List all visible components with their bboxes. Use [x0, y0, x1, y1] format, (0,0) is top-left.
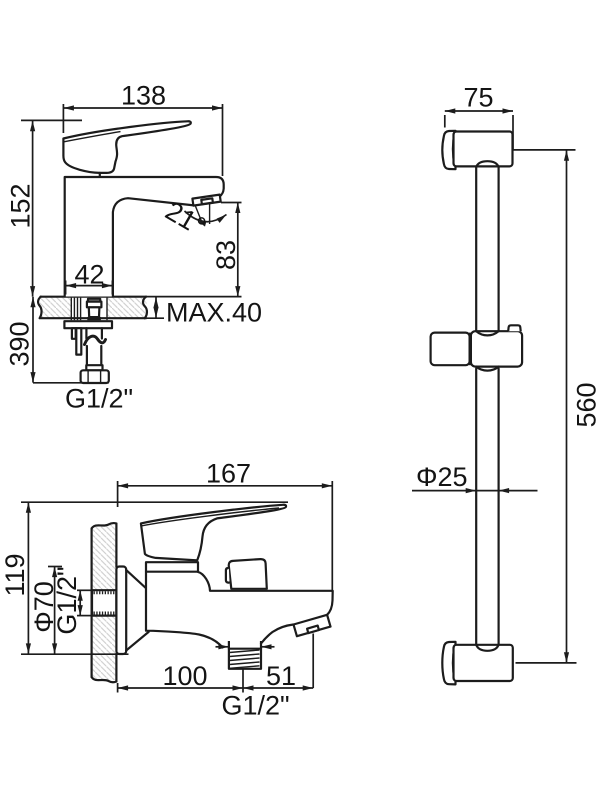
dim 119 line [27, 502, 29, 654]
hose lower segment [86, 346, 88, 365]
wall bottom break [92, 677, 117, 682]
angled spout outlet outer [294, 615, 331, 636]
hose fitting tube [89, 307, 100, 317]
top bracket junction arc [453, 133, 455, 166]
angle arc with arrows [185, 211, 227, 222]
dim nipple line [79, 590, 81, 615]
nipple thread serration bottom [94, 612, 116, 615]
svg-text:138: 138 [121, 81, 166, 111]
bath handle ring [146, 562, 198, 572]
dim 83 line [237, 203, 239, 297]
hose collar [86, 365, 102, 370]
slider right block [471, 331, 522, 366]
dim 51 line [243, 687, 313, 689]
svg-text:100: 100 [162, 661, 207, 691]
aerator outer [192, 195, 220, 206]
tube bottom cap arc [476, 645, 498, 651]
ext angled outlet [312, 634, 314, 689]
hose upper segment [85, 328, 87, 338]
svg-text:390: 390 [5, 321, 35, 366]
hose squiggle [85, 336, 106, 344]
svg-text:152: 152 [5, 183, 35, 228]
dim 42 line [66, 285, 113, 287]
dim 390 ext bottom [33, 382, 109, 384]
spout stream 21deg line [195, 205, 202, 222]
counter right break [143, 297, 147, 319]
outlet collar line [229, 648, 261, 650]
dim 167 ext right [331, 481, 333, 592]
MAX40 arrows [155, 297, 157, 318]
slider button [508, 325, 521, 331]
angle arc arrowhead left [198, 221, 206, 226]
wall face line upper [115, 524, 117, 568]
svg-text:83: 83 [211, 240, 241, 270]
spout vertical reference line [209, 203, 211, 224]
dim 138 ext left [62, 104, 64, 133]
wall hatch [93, 525, 116, 680]
dim 42 ext [65, 281, 67, 295]
dim 138 line [63, 107, 222, 109]
mounting stud short [72, 328, 76, 339]
dim 152 line [32, 121, 34, 297]
bottom bracket junction arc [453, 646, 455, 680]
nipple ext top [77, 589, 92, 591]
slider bottom bulge [476, 367, 498, 371]
svg-text:Φ25: Φ25 [416, 462, 468, 492]
diverter knob [229, 559, 267, 589]
washer plate under counter [64, 321, 112, 328]
escutcheon cone bottom [126, 632, 148, 651]
ext wall bottom [117, 683, 119, 693]
slider top dip [476, 331, 498, 335]
dim 138 ext right [222, 104, 224, 176]
bath body left and bottom [146, 572, 224, 648]
dim 152 ext top [21, 119, 82, 121]
dim 83 ext top [221, 202, 242, 204]
tube top cap arc [476, 161, 498, 167]
cone base edge [147, 591, 149, 633]
counter bottom ext [147, 317, 165, 319]
handle inner edge line [64, 132, 121, 142]
svg-text:119: 119 [0, 553, 30, 596]
dim 560 line [566, 150, 568, 663]
svg-text:560: 560 [572, 382, 600, 427]
escutcheon plate [116, 567, 126, 655]
counter hatch right [107, 298, 147, 318]
SECTION: shower slide bar right [412, 83, 600, 685]
dim 390 line [32, 297, 34, 383]
counter top line [41, 296, 147, 298]
SECTION: basin mixer top-left [5, 81, 263, 414]
handle to body step [99, 173, 101, 177]
counter hatch left [40, 298, 71, 318]
dim 75 ext right [512, 115, 514, 150]
dim 560 ext bottom [516, 662, 577, 664]
hose fitting top plate [88, 299, 100, 302]
dim 119 ext bottom [21, 653, 129, 655]
G1/2 hex nut [81, 370, 109, 383]
bath handle lever [141, 505, 286, 561]
bottom bracket body [454, 645, 513, 681]
bath outlet threaded [229, 641, 261, 669]
dim 167 ext left [117, 481, 119, 507]
bath body right of outlet [261, 625, 293, 644]
wall face line lower [115, 654, 117, 682]
nipple thread serration top [94, 591, 116, 594]
tube upper segment [475, 167, 477, 332]
outlet small dim arrow right [261, 646, 275, 648]
dim phi70 ext top [48, 566, 62, 568]
escutcheon cone top [126, 570, 148, 591]
hole right line [106, 298, 108, 321]
hose fitting dark band [87, 317, 101, 320]
nipple ext bottom [77, 615, 92, 617]
svg-text:G1/2": G1/2" [52, 566, 82, 634]
wall top break [92, 523, 117, 528]
svg-text:42: 42 [74, 260, 104, 290]
dim 560 ext top [513, 149, 576, 151]
dim 75 ext left [444, 115, 446, 128]
dim 75 line [445, 110, 513, 112]
top bracket body [454, 132, 513, 167]
dim 167 line [118, 485, 333, 487]
basin body underside [113, 198, 194, 296]
svg-text:51: 51 [266, 661, 296, 691]
mounting stud long [76, 328, 81, 354]
svg-text:G1/2": G1/2" [221, 691, 289, 721]
shank lines through counter [70, 298, 72, 321]
tube lower segment [475, 369, 477, 646]
basin body outline left top right [65, 177, 224, 297]
dim 119 ext top [21, 501, 288, 503]
aerator inner [201, 198, 213, 204]
slider left block [431, 333, 470, 366]
SECTION: bath mixer bottom-left [0, 459, 333, 721]
basin body [65, 177, 224, 297]
svg-text:167: 167 [206, 459, 251, 489]
counter bottom line [41, 317, 147, 319]
svg-text:75: 75 [463, 83, 493, 113]
nut flat lines [87, 370, 89, 383]
diverter tab [226, 568, 230, 583]
outlet small dim arrow left [216, 646, 229, 648]
dim phi25 mid [476, 490, 498, 492]
outlet threads [230, 650, 260, 668]
dim phi25 left line [412, 490, 476, 492]
angled spout outlet inner [307, 626, 319, 634]
top bracket flange [442, 131, 455, 169]
wall back line [90, 529, 92, 678]
slider divider [469, 333, 472, 366]
bottom bracket flange [442, 642, 455, 685]
counter top ext to 83 [147, 296, 242, 298]
ext outlet centerline [242, 670, 244, 693]
svg-text:MAX.40: MAX.40 [166, 298, 262, 328]
basin handle lever [63, 121, 190, 173]
counter left break [38, 297, 41, 319]
dim phi25 right line [499, 490, 538, 492]
threaded nipple through wall [92, 590, 116, 615]
svg-text:G1/2": G1/2" [65, 384, 133, 414]
hose fitting hex cap [87, 302, 102, 308]
bath handle inner line [142, 508, 279, 526]
bath body right side [198, 572, 333, 615]
dim 100 line [118, 687, 243, 689]
dim phi70 line [54, 567, 56, 654]
